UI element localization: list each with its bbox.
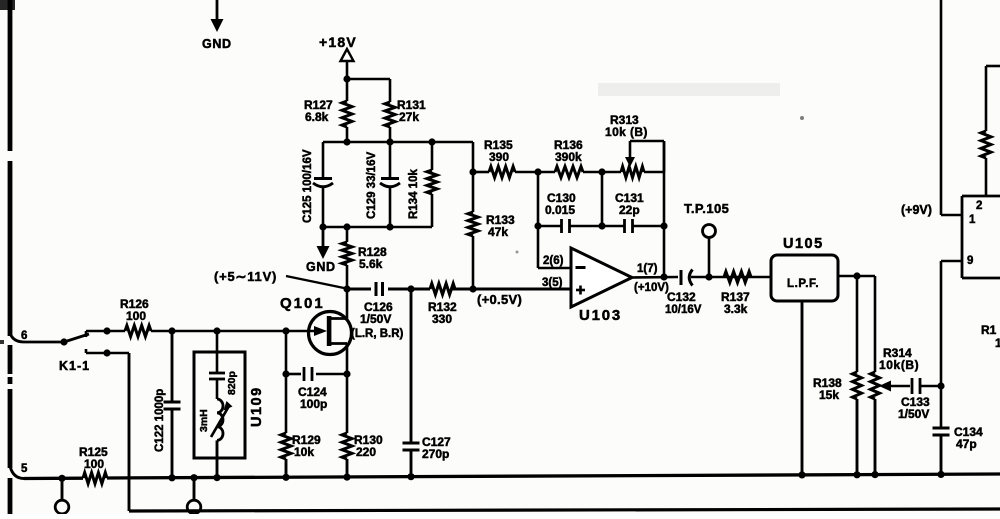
svg-text:47p: 47p — [956, 437, 977, 451]
wire: U105 ground pin — [798, 301, 805, 479]
svg-text:R1: R1 — [981, 323, 997, 337]
wire: +18V to R131 top — [347, 79, 390, 102]
power +18V — [319, 34, 357, 83]
resistor R127 — [304, 79, 352, 142]
svg-text:390k: 390k — [555, 150, 582, 164]
svg-text:+18V: +18V — [319, 34, 357, 50]
resistor R128 — [342, 227, 387, 289]
capacitor C129 — [366, 142, 400, 227]
potentiometer R314 — [871, 276, 920, 478]
svg-text:(+5∼11V): (+5∼11V) — [214, 269, 277, 284]
wire: inverting input branch — [534, 172, 571, 268]
wire: pin 9 down to C133/C134 — [937, 261, 962, 478]
wire: decoupling bank top rail — [323, 138, 473, 145]
svg-text:C122 1000p: C122 1000p — [154, 389, 166, 452]
svg-text:1(7): 1(7) — [637, 263, 658, 275]
svg-text:10k(B): 10k(B) — [879, 358, 919, 372]
resistor R131 — [385, 98, 426, 142]
svg-text:K1-1: K1-1 — [59, 359, 90, 373]
inductor 3mH variable inside U109 — [198, 379, 233, 478]
resistor R129 — [281, 331, 321, 477]
capacitor C133 — [898, 378, 945, 421]
svg-text:9: 9 — [967, 255, 973, 267]
wire: Q101 drain to R128 node — [346, 289, 349, 319]
svg-text:C132: C132 — [667, 290, 696, 304]
svg-text:L.P.F.: L.P.F. — [787, 278, 819, 290]
svg-text:(L.R, B.R): (L.R, B.R) — [351, 328, 404, 340]
wire: decoupling bank bottom rail — [319, 223, 432, 230]
svg-text:3mH: 3mH — [198, 409, 210, 432]
capacitor C130 — [538, 191, 602, 233]
test point T.P.105 — [684, 201, 729, 277]
svg-text:Q101: Q101 — [280, 295, 325, 312]
resistor R133 — [468, 142, 515, 289]
resistor on pin 2 branch — [981, 66, 1000, 196]
svg-text:6: 6 — [21, 330, 27, 342]
ground symbol mid (below C125) — [306, 227, 336, 274]
svg-text:22p: 22p — [619, 203, 640, 217]
wiper arrow R314 to C133 — [879, 381, 910, 392]
module U109 box — [194, 352, 265, 458]
svg-text:U105: U105 — [783, 236, 824, 252]
svg-text:(+9V): (+9V) — [901, 203, 932, 217]
connector pad circle 2 — [187, 478, 201, 514]
svg-text:1/50V: 1/50V — [360, 312, 391, 326]
svg-text:C129 33/16V: C129 33/16V — [366, 152, 378, 219]
capacitor C122 — [154, 331, 181, 478]
svg-text:(+0.5V): (+0.5V) — [477, 292, 522, 307]
svg-text:3.3k: 3.3k — [724, 302, 748, 316]
wire: bottom ground bus — [24, 473, 1000, 482]
svg-text:U109: U109 — [249, 386, 265, 427]
wire: left vertical bus (page edge cable) — [8, 0, 13, 514]
svg-text:2: 2 — [976, 200, 982, 212]
svg-text:3(5): 3(5) — [542, 277, 563, 289]
capacitor C124 — [282, 367, 350, 411]
resistor R125 — [79, 445, 108, 484]
filter module U105 — [771, 236, 838, 301]
wire: Q101 drain node to op-amp + input — [343, 285, 571, 292]
svg-text:220: 220 — [356, 445, 376, 459]
svg-text:270p: 270p — [422, 447, 449, 461]
svg-text:5: 5 — [21, 463, 28, 475]
svg-text:1: 1 — [969, 214, 976, 226]
svg-text:2(6): 2(6) — [543, 255, 564, 267]
svg-text:47k: 47k — [488, 225, 508, 239]
svg-text:1: 1 — [995, 336, 1000, 350]
capacitor C125 — [302, 142, 333, 227]
svg-text:1/50V: 1/50V — [898, 407, 929, 421]
resistor R138 — [813, 276, 862, 478]
svg-text:820p: 820p — [226, 371, 238, 395]
capacitor C134 — [933, 425, 984, 451]
svg-text:10k (B): 10k (B) — [605, 125, 648, 139]
wire: +9V feed vertical — [941, 0, 962, 215]
op-amp U103 — [542, 248, 669, 324]
potentiometer R313 — [605, 113, 664, 178]
svg-text:27k: 27k — [399, 110, 419, 124]
capacitor C131 — [602, 191, 664, 233]
svg-text:GND: GND — [202, 37, 232, 51]
wire: U105 output — [838, 272, 875, 279]
connector pad circle 1 — [55, 478, 69, 514]
svg-text:100: 100 — [126, 309, 146, 323]
svg-text:GND: GND — [306, 260, 336, 274]
svg-text:T.P.105: T.P.105 — [684, 201, 729, 216]
svg-text:0.015: 0.015 — [545, 203, 575, 217]
capacitor C126 — [351, 282, 404, 340]
svg-text:(+10V): (+10V) — [634, 282, 669, 294]
svg-text:390: 390 — [489, 150, 509, 164]
wire: second bottom rail — [129, 509, 1000, 511]
svg-text:5.6k: 5.6k — [359, 257, 383, 271]
resistor R135 — [484, 138, 515, 178]
IC box right edge — [962, 196, 1000, 278]
wire: Q101 source down — [346, 344, 349, 434]
ground symbol top left — [202, 0, 232, 51]
wire: feedback rail — [473, 168, 664, 175]
svg-text:100p: 100p — [300, 397, 327, 411]
svg-text:10k: 10k — [294, 445, 314, 459]
node 6 terminal curve — [10, 330, 64, 342]
label partial at right edge — [981, 323, 1000, 350]
resistor R132 — [428, 284, 457, 327]
svg-text:6.8k: 6.8k — [305, 110, 329, 124]
wire: op-amp output — [632, 273, 772, 280]
node (+5~11V) annotation — [214, 269, 344, 288]
svg-text:10/16V: 10/16V — [665, 304, 702, 316]
svg-text:R134 10k: R134 10k — [408, 169, 420, 219]
capacitor 820p inside U109 — [209, 331, 238, 395]
resistor R137 — [721, 272, 751, 317]
node 5 terminal curve — [10, 463, 62, 479]
resistor R126 — [120, 297, 151, 337]
wire: relay lower contact to bottom bus — [128, 353, 131, 511]
capacitor C127 — [403, 289, 452, 477]
resistor R134 — [408, 142, 437, 227]
capacitor C132 — [665, 270, 702, 317]
svg-text:15k: 15k — [819, 388, 839, 402]
scan artifact: faint gray band — [598, 83, 780, 96]
svg-text:U103: U103 — [579, 307, 622, 324]
transistor Q101 — [280, 295, 352, 355]
svg-text:100: 100 — [84, 457, 104, 471]
resistor R130 — [342, 433, 383, 477]
svg-text:C125 100/16V: C125 100/16V — [302, 149, 314, 223]
wire: C130/C131 mid branch — [598, 172, 605, 230]
wire: gate net horizontal (relay to Q101) — [86, 327, 314, 334]
svg-text:330: 330 — [432, 312, 452, 326]
resistor R136 — [554, 138, 583, 178]
wire: feedback right vertical to output — [660, 141, 667, 281]
relay switch K1-1 — [59, 331, 129, 373]
